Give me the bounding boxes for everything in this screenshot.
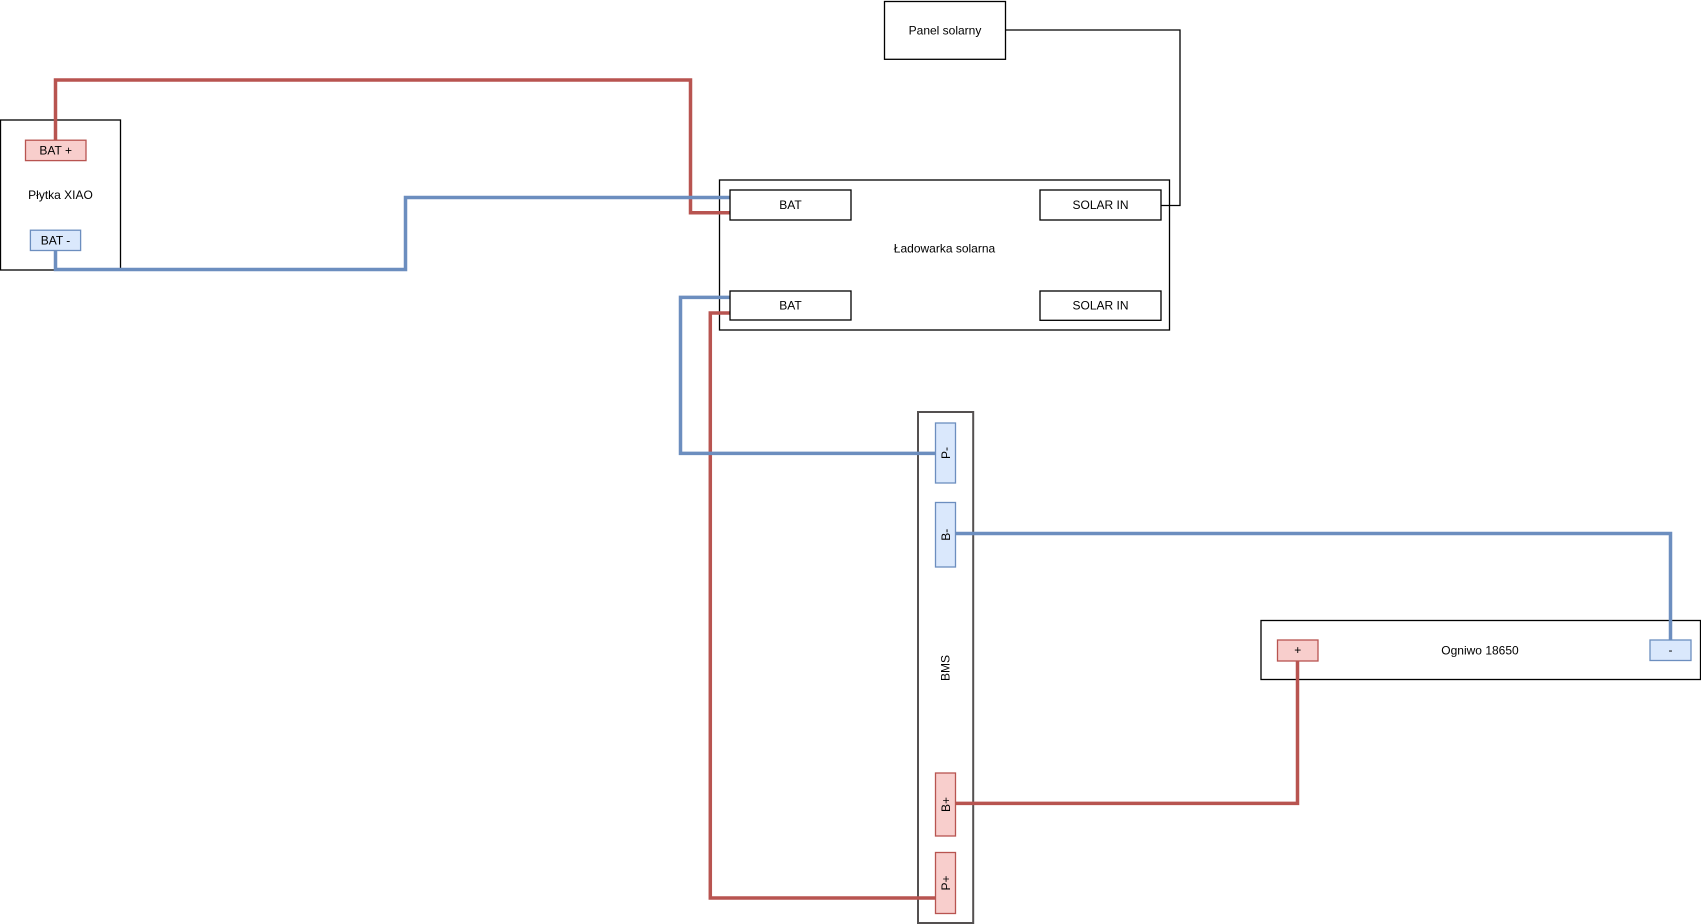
svg-text:Panel solarny: Panel solarny — [909, 24, 982, 38]
wire B+ to plus of Ogniwo (red) — [956, 661, 1298, 803]
svg-text:P+: P+ — [939, 875, 953, 890]
svg-text:BAT: BAT — [779, 198, 802, 212]
svg-text:BAT: BAT — [779, 299, 802, 313]
wire BAT bottom to P- (blue) — [681, 297, 936, 453]
svg-text:Ogniwo 18650: Ogniwo 18650 — [1441, 643, 1519, 657]
terminal + (Ogniwo) — [1278, 640, 1319, 661]
wire B- to minus of Ogniwo (blue) — [956, 534, 1671, 641]
svg-text:B-: B- — [939, 529, 953, 541]
terminal BAT (top) — [730, 190, 851, 220]
terminal P+ — [936, 853, 956, 914]
svg-text:Płytka XIAO: Płytka XIAO — [28, 188, 93, 202]
terminal SOLAR IN (bottom) — [1040, 291, 1161, 320]
svg-text:B+: B+ — [939, 797, 953, 812]
svg-text:BAT -: BAT - — [41, 233, 71, 247]
box Płytka XIAO — [1, 120, 121, 270]
terminal - (Ogniwo) — [1650, 640, 1691, 661]
box Panel solarny — [885, 2, 1006, 60]
svg-text:BAT +: BAT + — [39, 144, 72, 158]
box Ładowarka solarna — [720, 180, 1170, 330]
svg-text:+: + — [1294, 643, 1301, 657]
terminal B- — [936, 503, 956, 568]
svg-text:SOLAR IN: SOLAR IN — [1072, 198, 1128, 212]
svg-text:SOLAR IN: SOLAR IN — [1072, 299, 1128, 313]
wire BAT bottom to P+ (red) — [710, 313, 935, 898]
wire BAT- to BAT top (blue) — [56, 198, 731, 270]
svg-text:P-: P- — [939, 447, 953, 459]
terminal SOLAR IN (top) — [1040, 190, 1161, 220]
svg-text:-: - — [1669, 643, 1673, 657]
terminal BAT (bottom) — [730, 291, 851, 320]
svg-text:BMS: BMS — [939, 655, 953, 681]
terminal BAT + — [26, 140, 87, 160]
terminal P- — [936, 423, 956, 483]
terminal BAT - — [30, 230, 80, 250]
box Ogniwo 18650 — [1261, 621, 1701, 680]
terminal B+ — [936, 773, 956, 836]
wire Panel solarny to SOLAR IN (black) — [1006, 30, 1181, 206]
box BMS — [918, 412, 973, 923]
svg-text:Ładowarka solarna: Ładowarka solarna — [894, 241, 996, 255]
wire BAT+ to BAT top (red) — [56, 80, 731, 213]
